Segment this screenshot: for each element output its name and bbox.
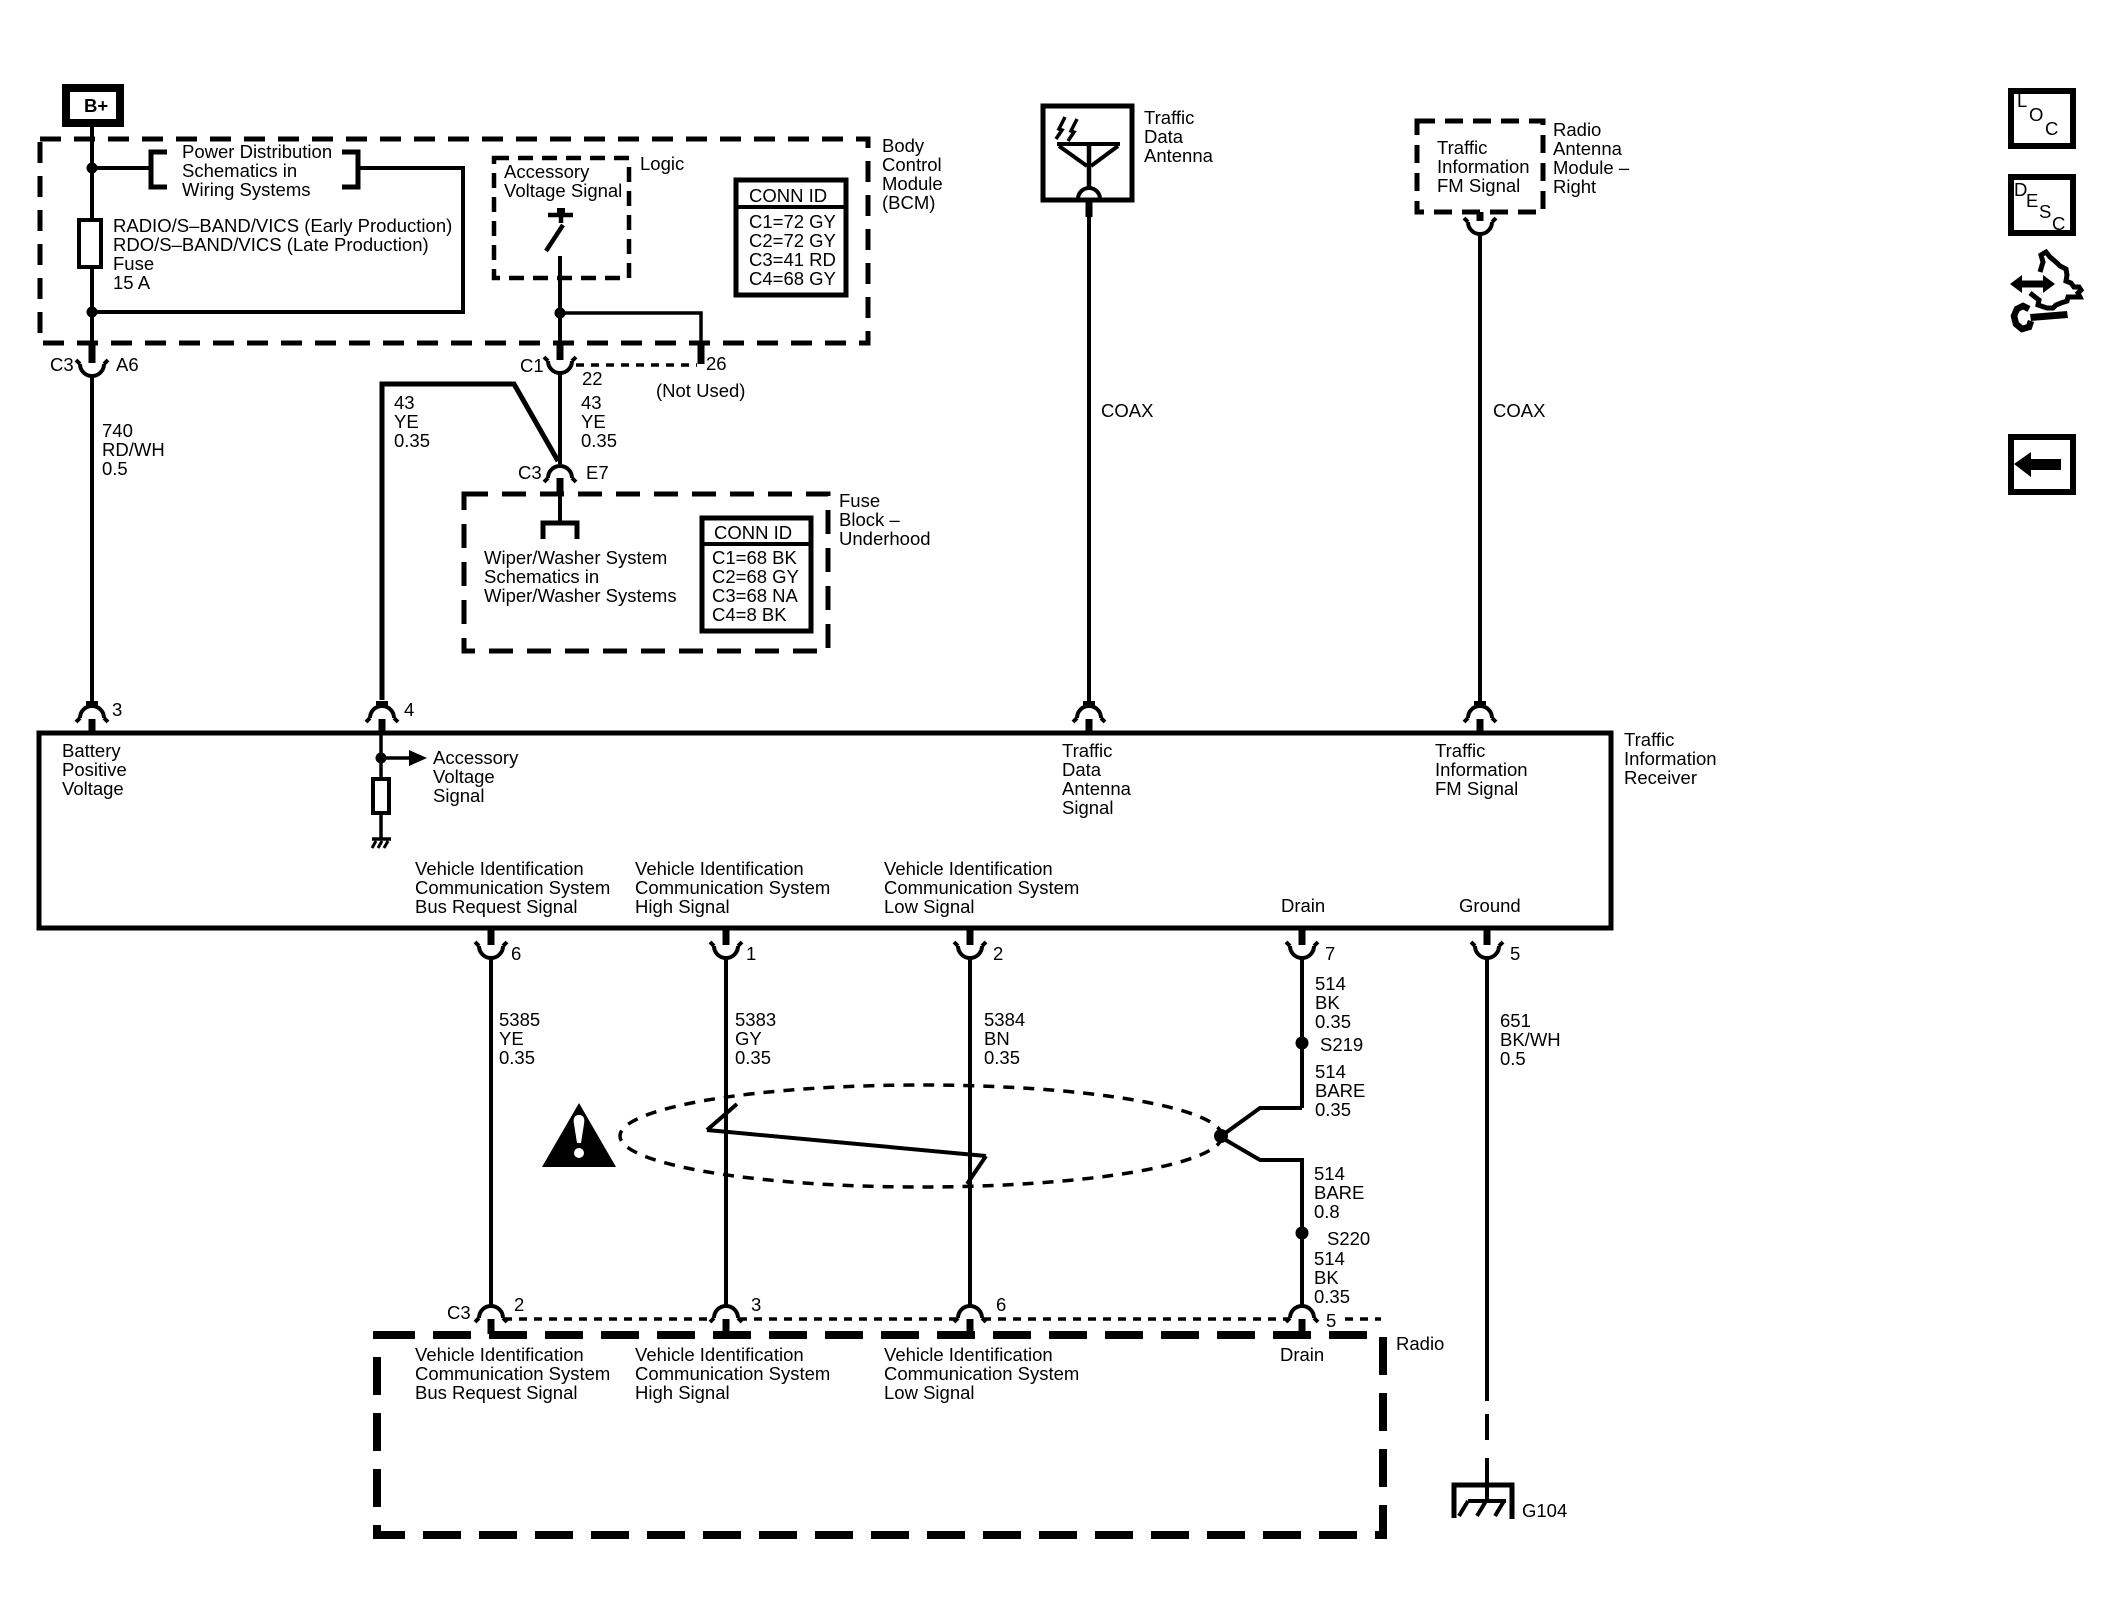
label Traffic Information FM Signal (receiver) xyxy=(1435,740,1528,799)
wire B+ to BCM junction xyxy=(90,127,94,170)
svg-text:Ground: Ground xyxy=(1459,895,1521,916)
coax wire module to receiver xyxy=(1478,235,1482,701)
svg-text:Wiring Systems: Wiring Systems xyxy=(182,179,311,200)
Traffic Information Receiver box xyxy=(39,733,1611,928)
svg-text:Traffic: Traffic xyxy=(1437,137,1487,158)
svg-text:0.35: 0.35 xyxy=(581,430,617,451)
warning triangle xyxy=(542,1103,616,1167)
wire ground dashed segments xyxy=(1485,1414,1489,1501)
ground internal xyxy=(372,839,391,848)
svg-text:0.8: 0.8 xyxy=(1314,1201,1340,1222)
svg-text:Drain: Drain xyxy=(1280,1344,1324,1365)
wire 514 BK drain upper xyxy=(1300,958,1304,1108)
connector face line C1 to 26 xyxy=(576,363,697,367)
stub below antenna box xyxy=(1086,200,1093,217)
connector pin 2 at receiver bottom xyxy=(954,929,986,958)
label radio Vehicle Identification Communication System Bus Request Signal xyxy=(415,1344,610,1403)
icon box back arrow xyxy=(2011,437,2073,492)
svg-text:Information: Information xyxy=(1624,748,1717,769)
svg-text:C3: C3 xyxy=(447,1302,471,1323)
svg-text:3: 3 xyxy=(751,1294,761,1315)
svg-text:Vehicle Identification: Vehicle Identification xyxy=(884,858,1053,879)
svg-text:5383: 5383 xyxy=(735,1009,776,1030)
svg-text:C: C xyxy=(2045,118,2058,139)
connector pin 4 at receiver top xyxy=(366,701,398,732)
svg-text:RDO/S–BAND/VICS (Late Producti: RDO/S–BAND/VICS (Late Production) xyxy=(113,234,429,255)
svg-text:Schematics in: Schematics in xyxy=(182,160,297,181)
svg-text:Antenna: Antenna xyxy=(1062,778,1132,799)
svg-text:514: 514 xyxy=(1315,1061,1346,1082)
label Power Distribution Schematics in Wiring Systems xyxy=(182,141,332,200)
svg-text:E: E xyxy=(2026,190,2038,211)
label radio Vehicle Identification Communication System Low Signal xyxy=(884,1344,1079,1403)
label Battery Positive Voltage xyxy=(62,740,127,799)
connector id table fuse block xyxy=(702,518,811,631)
svg-text:BN: BN xyxy=(984,1028,1010,1049)
svg-text:C1=72 GY: C1=72 GY xyxy=(749,211,836,232)
svg-text:(Not Used): (Not Used) xyxy=(656,380,745,401)
connector pin 1 at receiver bottom xyxy=(710,929,742,958)
Body Control Module dashed box xyxy=(40,139,868,343)
Logic dashed box Accessory Voltage Signal xyxy=(494,158,629,278)
label wire 651 BK/WH 0.5 xyxy=(1500,1010,1561,1069)
wire shield junction to drain lower xyxy=(1224,1139,1302,1306)
svg-text:Vehicle Identification: Vehicle Identification xyxy=(635,1344,804,1365)
svg-text:YE: YE xyxy=(499,1028,524,1049)
svg-text:Positive: Positive xyxy=(62,759,127,780)
svg-text:RD/WH: RD/WH xyxy=(102,439,165,460)
svg-text:High Signal: High Signal xyxy=(635,1382,730,1403)
svg-text:Block –: Block – xyxy=(839,509,900,530)
svg-text:Wiper/Washer Systems: Wiper/Washer Systems xyxy=(484,585,677,606)
wire junction to left bracket xyxy=(92,166,149,170)
svg-text:Traffic: Traffic xyxy=(1624,729,1674,750)
wire 5384 BN receiver pin 2 to radio xyxy=(968,958,972,1306)
svg-text:Drain: Drain xyxy=(1281,895,1325,916)
connector face line radio xyxy=(504,1317,1381,1321)
svg-text:Accessory: Accessory xyxy=(504,161,590,182)
connector pin 3 at radio xyxy=(710,1306,742,1334)
svg-text:43: 43 xyxy=(394,392,415,413)
svg-text:G104: G104 xyxy=(1522,1500,1567,1521)
svg-text:Vehicle Identification: Vehicle Identification xyxy=(415,858,584,879)
svg-text:Information: Information xyxy=(1437,156,1530,177)
node junction below switch xyxy=(555,308,566,319)
svg-text:0.35: 0.35 xyxy=(394,430,430,451)
svg-text:Bus Request Signal: Bus Request Signal xyxy=(415,896,578,917)
svg-text:Communication System: Communication System xyxy=(635,1363,830,1384)
svg-text:C1: C1 xyxy=(520,355,544,376)
icon part locator arrow wrench xyxy=(2010,252,2081,329)
label Radio Antenna Module - Right xyxy=(1553,119,1630,197)
label wire 740 RD/WH 0.5 xyxy=(102,420,165,479)
wire switch to junction xyxy=(558,256,562,313)
label Wiper/Washer System Schematics xyxy=(484,547,677,606)
svg-text:Vehicle Identification: Vehicle Identification xyxy=(635,858,804,879)
svg-text:Communication System: Communication System xyxy=(415,877,610,898)
svg-text:O: O xyxy=(2029,104,2043,125)
Fuse Block Underhood dashed box xyxy=(464,494,828,651)
svg-text:C: C xyxy=(2052,213,2065,234)
svg-text:S219: S219 xyxy=(1320,1034,1363,1055)
wire junction to pin 26 xyxy=(560,313,701,344)
label wire 514 BARE 0.35 xyxy=(1315,1061,1365,1120)
connector pin 6 at receiver bottom xyxy=(475,929,507,958)
svg-text:CONN ID: CONN ID xyxy=(749,185,827,206)
svg-text:5384: 5384 xyxy=(984,1009,1025,1030)
Radio dashed box xyxy=(377,1335,1383,1535)
svg-text:Module: Module xyxy=(882,173,943,194)
label Vehicle Identification Communication System High Signal xyxy=(635,858,830,917)
svg-text:BK: BK xyxy=(1315,992,1340,1013)
svg-text:FM Signal: FM Signal xyxy=(1437,175,1520,196)
label wire 514 BARE 0.8 xyxy=(1314,1163,1364,1222)
wire fuse branch vertical xyxy=(90,168,94,344)
wire 5385 YE receiver pin 6 to radio xyxy=(489,958,493,1306)
svg-text:43: 43 xyxy=(581,392,602,413)
connector C3 pin 2 at radio xyxy=(475,1306,507,1334)
label Body Control Module (BCM) xyxy=(882,135,943,213)
wire 5383 GY receiver pin 1 to radio xyxy=(724,958,728,1306)
svg-text:C3=41 RD: C3=41 RD xyxy=(749,249,836,270)
svg-text:6: 6 xyxy=(511,943,521,964)
svg-text:RADIO/S–BAND/VICS (Early Produ: RADIO/S–BAND/VICS (Early Production) xyxy=(113,215,452,236)
svg-text:2: 2 xyxy=(514,1294,524,1315)
svg-text:BARE: BARE xyxy=(1314,1182,1364,1203)
svg-text:BARE: BARE xyxy=(1315,1080,1365,1101)
connector C3 pin A6 at BCM boundary xyxy=(76,344,108,376)
label wire 43 YE 0.35 left xyxy=(394,392,430,451)
twisted pair ellipse xyxy=(620,1085,1222,1187)
svg-text:651: 651 xyxy=(1500,1010,1531,1031)
svg-text:BK/WH: BK/WH xyxy=(1500,1029,1561,1050)
wire drain jog to shield junction xyxy=(1224,1108,1302,1134)
svg-text:0.35: 0.35 xyxy=(1315,1011,1351,1032)
svg-text:0.35: 0.35 xyxy=(1315,1099,1351,1120)
antenna symbol with RF strokes xyxy=(1056,117,1120,199)
svg-text:Traffic: Traffic xyxy=(1062,740,1112,761)
svg-text:Low Signal: Low Signal xyxy=(884,1382,975,1403)
svg-text:Receiver: Receiver xyxy=(1624,767,1697,788)
svg-text:0.5: 0.5 xyxy=(1500,1048,1526,1069)
svg-text:0.5: 0.5 xyxy=(102,458,128,479)
svg-text:1: 1 xyxy=(746,943,756,964)
connector pin 6 at radio xyxy=(954,1306,986,1334)
label Traffic Information FM Signal (module) xyxy=(1437,137,1530,196)
wire 43 YE from C1 to C3 E7 xyxy=(558,374,562,464)
svg-text:5: 5 xyxy=(1510,943,1520,964)
svg-text:Logic: Logic xyxy=(640,153,684,174)
svg-text:Signal: Signal xyxy=(1062,797,1113,818)
label Fuse Block - Underhood xyxy=(839,490,931,549)
svg-text:Communication System: Communication System xyxy=(884,877,1079,898)
svg-text:A6: A6 xyxy=(116,354,139,375)
svg-text:Information: Information xyxy=(1435,759,1528,780)
svg-text:2: 2 xyxy=(993,943,1003,964)
label radio Vehicle Identification Communication System High Signal xyxy=(635,1344,830,1403)
svg-text:Body: Body xyxy=(882,135,925,156)
arrow accessory voltage signal xyxy=(381,750,427,766)
twisted pair marker xyxy=(707,1104,986,1184)
fuse RADIO/S-BAND/VICS 15 A xyxy=(79,220,101,267)
svg-text:YE: YE xyxy=(581,411,606,432)
svg-text:514: 514 xyxy=(1314,1163,1345,1184)
connector coax at receiver top left xyxy=(1073,701,1105,732)
svg-text:(BCM): (BCM) xyxy=(882,192,935,213)
svg-text:5385: 5385 xyxy=(499,1009,540,1030)
svg-text:C3: C3 xyxy=(518,462,542,483)
svg-text:0.35: 0.35 xyxy=(984,1047,1020,1068)
svg-text:Communication System: Communication System xyxy=(635,877,830,898)
svg-text:740: 740 xyxy=(102,420,133,441)
node junction at fuse bottom xyxy=(87,307,98,318)
node internal junction xyxy=(376,753,387,764)
svg-text:CONN ID: CONN ID xyxy=(714,522,792,543)
Traffic Information FM Signal dashed box xyxy=(1417,121,1543,212)
svg-text:S220: S220 xyxy=(1327,1228,1370,1249)
svg-text:7: 7 xyxy=(1325,943,1335,964)
svg-text:Radio: Radio xyxy=(1553,119,1601,140)
connector coax at receiver top right xyxy=(1464,701,1496,732)
svg-text:Bus Request Signal: Bus Request Signal xyxy=(415,1382,578,1403)
pin 26 stub not used xyxy=(698,344,705,364)
label Accessory Voltage Signal (receiver) xyxy=(433,747,519,806)
svg-text:26: 26 xyxy=(706,353,727,374)
connector C1 pin 22 at BCM boundary xyxy=(544,344,576,373)
svg-text:COAX: COAX xyxy=(1101,400,1153,421)
svg-text:Voltage: Voltage xyxy=(62,778,124,799)
svg-text:Underhood: Underhood xyxy=(839,528,931,549)
svg-text:Fuse: Fuse xyxy=(839,490,880,511)
wire junction to connector C1 xyxy=(558,313,562,344)
label Traffic Data Antenna Signal xyxy=(1062,740,1132,818)
connector C3 pin E7 at fuse block xyxy=(544,466,576,496)
connector pin 3 at receiver top xyxy=(76,701,108,732)
svg-text:Fuse: Fuse xyxy=(113,253,154,274)
svg-text:514: 514 xyxy=(1314,1248,1345,1269)
svg-text:514: 514 xyxy=(1315,973,1346,994)
svg-text:Data: Data xyxy=(1144,126,1184,147)
coax wire antenna to receiver xyxy=(1087,217,1091,701)
node junction at fuse top xyxy=(87,163,98,174)
icon box DESC xyxy=(2011,177,2073,234)
svg-text:Vehicle Identification: Vehicle Identification xyxy=(415,1344,584,1365)
label wire 5385 YE 0.35 xyxy=(499,1009,540,1068)
svg-text:Schematics in: Schematics in xyxy=(484,566,599,587)
label wire 514 BK 0.35 lower xyxy=(1314,1248,1350,1307)
wire 740 RD/WH from C3 A6 to receiver pin 3 xyxy=(90,376,94,701)
label fuse name and rating xyxy=(113,215,452,293)
svg-text:C2=72 GY: C2=72 GY xyxy=(749,230,836,251)
label wire 5384 BN 0.35 xyxy=(984,1009,1025,1068)
svg-text:B+: B+ xyxy=(84,95,108,116)
svg-text:Power Distribution: Power Distribution xyxy=(182,141,332,162)
svg-text:C4=68 GY: C4=68 GY xyxy=(749,268,836,289)
switch accessory voltage xyxy=(546,208,573,251)
wire into wiper schematic continuation xyxy=(558,496,562,522)
connector pin 7 at receiver bottom xyxy=(1286,929,1318,958)
splice S219 xyxy=(1296,1037,1309,1050)
svg-text:C4=8 BK: C4=8 BK xyxy=(712,604,787,625)
svg-text:Traffic: Traffic xyxy=(1435,740,1485,761)
icon box LOC xyxy=(2011,90,2073,146)
svg-text:0.35: 0.35 xyxy=(1314,1286,1350,1307)
svg-text:Radio: Radio xyxy=(1396,1333,1444,1354)
connector id table BCM xyxy=(736,180,846,295)
svg-text:0.35: 0.35 xyxy=(499,1047,535,1068)
wire 651 BK/WH ground xyxy=(1485,958,1489,1401)
svg-text:Voltage Signal: Voltage Signal xyxy=(504,180,622,201)
bracket right of Power Distribution note xyxy=(342,152,358,187)
svg-text:High Signal: High Signal xyxy=(635,896,730,917)
node shield junction xyxy=(1214,1129,1228,1143)
svg-text:3: 3 xyxy=(112,699,122,720)
svg-text:6: 6 xyxy=(996,1294,1006,1315)
svg-text:4: 4 xyxy=(404,699,414,720)
label wire 5383 GY 0.35 xyxy=(735,1009,776,1068)
svg-text:S: S xyxy=(2039,201,2051,222)
svg-text:C1=68 BK: C1=68 BK xyxy=(712,547,798,568)
wire pin 4 internal xyxy=(379,735,383,758)
svg-text:Right: Right xyxy=(1553,176,1596,197)
power symbol B+ xyxy=(66,88,120,123)
svg-text:Wiper/Washer System: Wiper/Washer System xyxy=(484,547,667,568)
svg-text:L: L xyxy=(2017,90,2027,111)
label Vehicle Identification Communication System Bus Request Signal xyxy=(415,858,610,917)
svg-text:22: 22 xyxy=(582,368,603,389)
wire bracket to fuse label frame xyxy=(97,168,463,312)
label wire 514 BK 0.35 upper xyxy=(1315,973,1351,1032)
svg-text:FM Signal: FM Signal xyxy=(1435,778,1518,799)
svg-text:E7: E7 xyxy=(586,462,609,483)
svg-text:Module –: Module – xyxy=(1553,157,1630,178)
wire resistor to ground xyxy=(379,813,383,839)
connector pin 5 at receiver bottom xyxy=(1471,929,1503,958)
label Vehicle Identification Communication System Low Signal xyxy=(884,858,1079,917)
svg-text:0.35: 0.35 xyxy=(735,1047,771,1068)
svg-text:C3: C3 xyxy=(50,354,74,375)
svg-text:Data: Data xyxy=(1062,759,1102,780)
svg-text:C2=68 GY: C2=68 GY xyxy=(712,566,799,587)
splice S220 xyxy=(1296,1227,1309,1240)
svg-text:Accessory: Accessory xyxy=(433,747,519,768)
svg-text:COAX: COAX xyxy=(1493,400,1545,421)
wire 43 YE branch to receiver pin 4 xyxy=(382,384,558,700)
svg-text:C3=68 NA: C3=68 NA xyxy=(712,585,799,606)
ground G104 xyxy=(1454,1485,1512,1519)
label Accessory Voltage Signal (BCM) xyxy=(504,161,622,201)
label wire 43 YE 0.35 right xyxy=(581,392,617,451)
svg-text:GY: GY xyxy=(735,1028,762,1049)
svg-text:Traffic: Traffic xyxy=(1144,107,1194,128)
label Traffic Information Receiver xyxy=(1624,729,1717,788)
bracket left of Power Distribution note xyxy=(151,152,167,187)
svg-text:15 A: 15 A xyxy=(113,272,151,293)
Traffic Data Antenna box xyxy=(1043,106,1132,200)
wire junction to resistor xyxy=(379,758,383,779)
svg-text:BK: BK xyxy=(1314,1267,1339,1288)
resistor pull down xyxy=(373,779,389,813)
svg-text:Vehicle Identification: Vehicle Identification xyxy=(884,1344,1053,1365)
svg-text:Battery: Battery xyxy=(62,740,121,761)
label Traffic Data Antenna xyxy=(1144,107,1214,166)
svg-text:Control: Control xyxy=(882,154,942,175)
svg-text:Communication System: Communication System xyxy=(884,1363,1079,1384)
svg-text:YE: YE xyxy=(394,411,419,432)
svg-text:Antenna: Antenna xyxy=(1553,138,1623,159)
connector pin 5 at radio xyxy=(1286,1306,1318,1334)
svg-text:Low Signal: Low Signal xyxy=(884,896,975,917)
connector at radio antenna module xyxy=(1464,212,1496,234)
svg-text:5: 5 xyxy=(1326,1310,1336,1331)
continuation bracket wiper washer xyxy=(543,523,577,539)
svg-text:Signal: Signal xyxy=(433,785,484,806)
svg-text:Voltage: Voltage xyxy=(433,766,495,787)
svg-text:Communication System: Communication System xyxy=(415,1363,610,1384)
svg-text:Antenna: Antenna xyxy=(1144,145,1214,166)
